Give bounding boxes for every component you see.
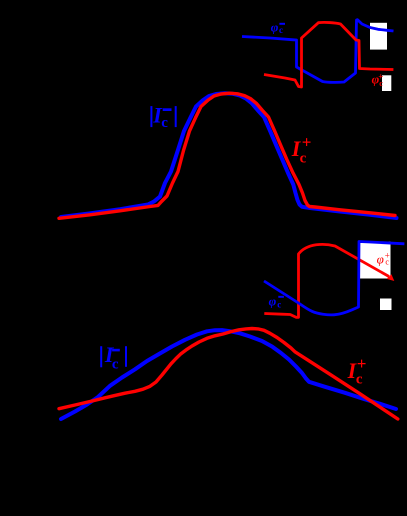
- svg-text:+: +: [302, 133, 312, 152]
- top inset: big white box: [370, 23, 387, 50]
- top inset: blue label phi_c^-: [271, 20, 285, 35]
- svg-text:c: c: [279, 25, 283, 35]
- svg-text:+: +: [385, 251, 390, 261]
- bottom panel label Ic+ (red): [347, 354, 367, 387]
- top inset: red label phi_c^+: [372, 71, 384, 88]
- bottom panel label |Ic-| (blue): [100, 342, 127, 373]
- top panel: red curve Ic+: [59, 93, 395, 218]
- svg-text:c: c: [277, 300, 281, 310]
- bottom panel: blue curve |Ic-|: [61, 330, 396, 419]
- svg-text:φ: φ: [377, 252, 384, 267]
- svg-text:+: +: [357, 354, 367, 373]
- top inset: blue phase curve: [242, 20, 394, 83]
- svg-text:φ: φ: [271, 20, 279, 35]
- svg-text:c: c: [300, 151, 307, 167]
- top inset: small white box: [382, 75, 391, 91]
- bottom inset: blue phase curve: [264, 242, 404, 315]
- top panel label Ic+ (red): [291, 133, 312, 167]
- bottom inset: small white box: [380, 299, 392, 311]
- bottom inset: red phase curve: [264, 244, 389, 317]
- svg-text:φ: φ: [269, 293, 277, 308]
- bottom inset: red arrowhead: [387, 274, 395, 281]
- bottom panel: red curve Ic+: [59, 329, 398, 420]
- bottom inset: red label phi_c^+: [377, 251, 390, 267]
- svg-text:c: c: [356, 371, 363, 387]
- bottom inset: big white box: [360, 242, 391, 279]
- top inset: red phase curve: [264, 22, 393, 87]
- svg-text:+: +: [378, 71, 383, 81]
- svg-text:c: c: [112, 357, 119, 373]
- top panel: blue curve |Ic-|: [61, 93, 397, 218]
- bottom inset: blue label phi_c^-: [269, 293, 284, 309]
- top panel label |Ic-| (blue): [150, 103, 176, 131]
- svg-text:c: c: [161, 115, 168, 131]
